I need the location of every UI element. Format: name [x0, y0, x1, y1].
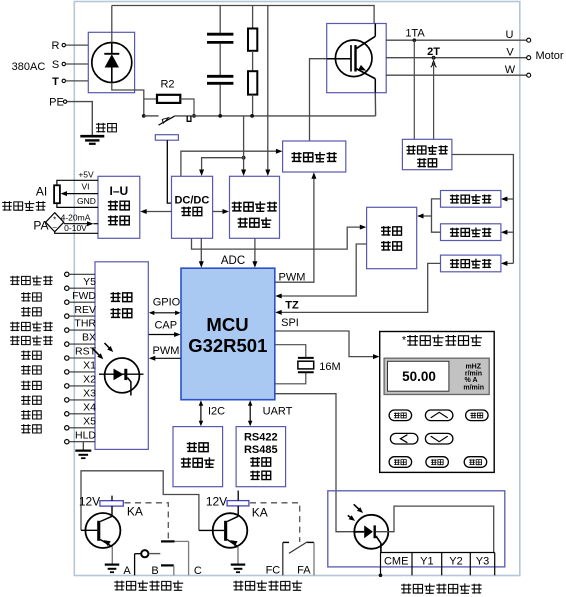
svg-text:FWD: FWD [72, 290, 96, 302]
svg-text:X5: X5 [83, 415, 96, 427]
svg-text:U: U [506, 29, 514, 41]
svg-text:12V: 12V [206, 495, 227, 509]
wire VI wiper [61, 182, 99, 197]
wire PWM mcu to drive [275, 172, 317, 282]
svg-text:CME: CME [384, 556, 408, 568]
svg-text:RST: RST [75, 346, 97, 358]
svg-text:RS422: RS422 [244, 432, 278, 444]
svg-text:CAP: CAP [154, 320, 177, 332]
terminal R [52, 40, 89, 52]
dashed link relay1 [125, 503, 169, 539]
wire TZ overload to MCU [275, 263, 440, 315]
svg-text:I2C: I2C [208, 406, 225, 418]
block I-U converter [98, 176, 140, 238]
rectifier bridge U0 [88, 32, 134, 92]
svg-text:BX: BX [82, 332, 96, 344]
wire GPIO [149, 297, 181, 315]
relay contact group ABC [135, 541, 189, 575]
wire DC+ top rail [112, 6, 374, 24]
label frequency setting [2, 201, 45, 211]
wire IGBT emitter to bus [374, 93, 376, 116]
wire collector to Y3 [376, 506, 494, 552]
block overcurrent protection [441, 191, 501, 208]
caption fault output contacts [114, 580, 183, 590]
wire dcdc to mcu ADC [199, 238, 204, 267]
wire bus feed to drive circuit [181, 149, 283, 177]
svg-text:GND: GND [77, 196, 96, 206]
svg-text:PE: PE [49, 96, 64, 108]
svg-text:X4: X4 [83, 401, 96, 413]
terminal PE [49, 96, 67, 108]
wire sampling to protections [452, 155, 514, 264]
wire phase W [386, 74, 527, 76]
wire UART [248, 400, 293, 426]
svg-text:PWM: PWM [279, 272, 306, 284]
wire bus to ovp vertical1 [241, 116, 246, 176]
wire phase U [386, 39, 527, 41]
svg-text:KA: KA [127, 505, 143, 519]
display bezel [384, 358, 489, 394]
block drive circuit [283, 141, 346, 172]
wire MCU to optocoupler [275, 394, 355, 532]
capacitor C1 [207, 6, 233, 43]
svg-text:SPI: SPI [281, 317, 299, 329]
svg-text:DC/DC: DC/DC [174, 194, 209, 206]
svg-text:VI: VI [81, 182, 89, 192]
svg-text:C: C [194, 565, 202, 577]
svg-text:A: A [123, 565, 131, 577]
svg-text:+5V: +5V [78, 169, 94, 179]
wire PWM isolation [149, 345, 181, 361]
svg-text:12V: 12V [79, 495, 100, 509]
svg-text:TZ: TZ [285, 299, 299, 311]
svg-text:RS485: RS485 [244, 444, 278, 456]
svg-text:16M: 16M [319, 361, 340, 373]
svg-text:–: – [53, 224, 57, 231]
terminal V [506, 46, 530, 59]
terminal cells CME Y1 Y2 Y3 [381, 553, 495, 576]
svg-text:THR: THR [74, 318, 96, 330]
svg-text:Y2: Y2 [449, 556, 462, 568]
svg-text:% A: % A [465, 377, 478, 384]
block current limit [441, 224, 501, 241]
wire dcdc to IU [140, 209, 171, 214]
caption run status output [233, 580, 302, 590]
svg-text:Motor: Motor [535, 50, 563, 62]
wire rectifier bottom to bus [112, 83, 144, 116]
potentiometer AI [54, 185, 60, 203]
svg-text:Y3: Y3 [476, 556, 489, 568]
block program memory [173, 427, 223, 487]
wire rail to ovp vertical2 [265, 6, 270, 177]
relay coil KA2 [227, 491, 268, 520]
node C2 bus junction [218, 114, 222, 118]
wire overcurrent+limit to protection [417, 199, 441, 232]
resistor R3 [248, 6, 257, 72]
terminal S [52, 59, 88, 71]
svg-text:G32R501: G32R501 [188, 335, 267, 356]
display window 50.00 [388, 361, 449, 391]
svg-text:UART: UART [263, 406, 293, 418]
svg-text:*: * [402, 335, 407, 347]
frame outer border [74, 2, 520, 576]
ground PE [80, 136, 104, 144]
svg-text:4-20mA: 4-20mA [61, 213, 91, 223]
capacitor C2 [207, 44, 233, 116]
ground terminal strip [75, 442, 91, 459]
svg-text:B: B [151, 565, 158, 577]
terminal T [52, 76, 88, 88]
svg-text:REV: REV [74, 304, 96, 316]
svg-text:X3: X3 [83, 388, 96, 400]
svg-text:m/min: m/min [463, 384, 484, 391]
svg-text:FC: FC [266, 565, 281, 577]
switch charging bypass [159, 116, 175, 125]
wire +5V [57, 169, 98, 185]
svg-text:Y5: Y5 [83, 276, 96, 288]
svg-text:R: R [52, 40, 60, 52]
wire dcdc to protection input [192, 225, 367, 250]
wire bus tap to dcdc [199, 156, 245, 176]
wire base link Q2-Q3 [81, 471, 199, 531]
svg-text:ADC: ADC [221, 255, 245, 267]
ground Q3 [231, 565, 246, 573]
resistor R4 [248, 71, 257, 116]
svg-text:50.00: 50.00 [402, 369, 436, 384]
svg-text:PA: PA [33, 219, 48, 233]
labels terminal functions chinese [10, 275, 53, 433]
svg-text:R2: R2 [160, 78, 174, 90]
svg-text:MCU: MCU [206, 314, 248, 335]
block protection circuit [367, 207, 417, 268]
wire gate from drive circuit [310, 59, 327, 141]
ground Q2 [105, 565, 120, 573]
block open collector outer [328, 491, 505, 567]
button program [389, 410, 412, 421]
terminal W [505, 64, 531, 77]
node bus-left junction [142, 114, 146, 118]
node CME junction [379, 574, 383, 578]
transistor IGBT module Q1 [327, 24, 387, 93]
transistor Q3 run [199, 506, 247, 564]
button down [425, 433, 453, 444]
label jiedi(earth) [96, 123, 116, 133]
block DC/DC power [172, 176, 213, 238]
wire phase V [386, 57, 527, 59]
block isolation circuit [95, 262, 148, 450]
wire SPI to panel [275, 317, 380, 359]
button up [425, 410, 453, 421]
svg-text:*: * [53, 215, 56, 224]
button left [390, 433, 418, 444]
crystal 16M [275, 345, 341, 384]
svg-text:I–U: I–U [110, 184, 129, 198]
svg-text:KA: KA [252, 506, 268, 520]
block overload protection [441, 255, 501, 272]
svg-text:T: T [52, 76, 59, 88]
button reset [389, 457, 412, 468]
MCU G32R501 [181, 268, 275, 400]
button stop [466, 410, 489, 421]
component inrush notch [187, 116, 191, 121]
svg-text:HLD: HLD [75, 429, 96, 441]
display units [463, 363, 484, 391]
svg-text:S: S [52, 59, 59, 71]
svg-text:0-10V: 0-10V [64, 223, 87, 233]
svg-text:GPIO: GPIO [153, 297, 181, 309]
block OVP/UVP [230, 176, 280, 238]
block operator panel [380, 332, 495, 473]
optocoupler U3 [348, 504, 389, 553]
wire 0-10V [55, 223, 98, 234]
dashed link relay2 [250, 503, 300, 542]
relay contact FC FA [283, 542, 314, 576]
svg-text:X1: X1 [83, 360, 96, 372]
svg-text:mHZ: mHZ [465, 363, 481, 370]
wire PE to ground [67, 102, 92, 136]
block current signal sampling [402, 139, 452, 169]
svg-text:W: W [505, 64, 516, 76]
node R2 junction [192, 114, 196, 118]
svg-text:X2: X2 [83, 374, 96, 386]
wire GND [57, 196, 98, 207]
component contactor plate [155, 135, 178, 203]
wire dcdc to ovp [213, 209, 229, 214]
current transformer 2TA [427, 46, 440, 139]
caption open collector output [401, 583, 482, 593]
wire ovp to mcu ADC [252, 238, 257, 267]
relay coil KA1 [100, 496, 143, 519]
wire DC- bus [144, 115, 159, 117]
button run [464, 457, 487, 468]
wire rectifier to top rail [111, 6, 113, 43]
svg-text:FA: FA [297, 565, 311, 577]
wire protection to MCU [275, 244, 366, 299]
label operation mode display [402, 335, 482, 347]
svg-text:Y1: Y1 [420, 556, 433, 568]
button function [426, 457, 449, 468]
optocoupler U2 [92, 343, 144, 396]
transistor Q2 fault [81, 506, 120, 564]
wire CAP [149, 320, 181, 337]
resistor R2 [144, 78, 194, 116]
wire 4-20mA [61, 213, 98, 227]
node R4 bus junction [250, 114, 254, 118]
current transformer 1TA [405, 27, 425, 139]
svg-text:V: V [506, 46, 514, 58]
svg-text:380AC: 380AC [12, 61, 46, 73]
svg-text:AI: AI [36, 185, 47, 199]
svg-text:1TA: 1TA [405, 27, 425, 39]
source PA diamond [46, 213, 64, 232]
block RS422 RS485 comm [236, 427, 286, 487]
terminal names Y5-HLD [72, 276, 97, 441]
terminal U [506, 29, 531, 42]
wire I2C [199, 400, 225, 426]
terminal strip circles and wires [65, 272, 95, 444]
svg-text:PWM: PWM [153, 345, 180, 357]
